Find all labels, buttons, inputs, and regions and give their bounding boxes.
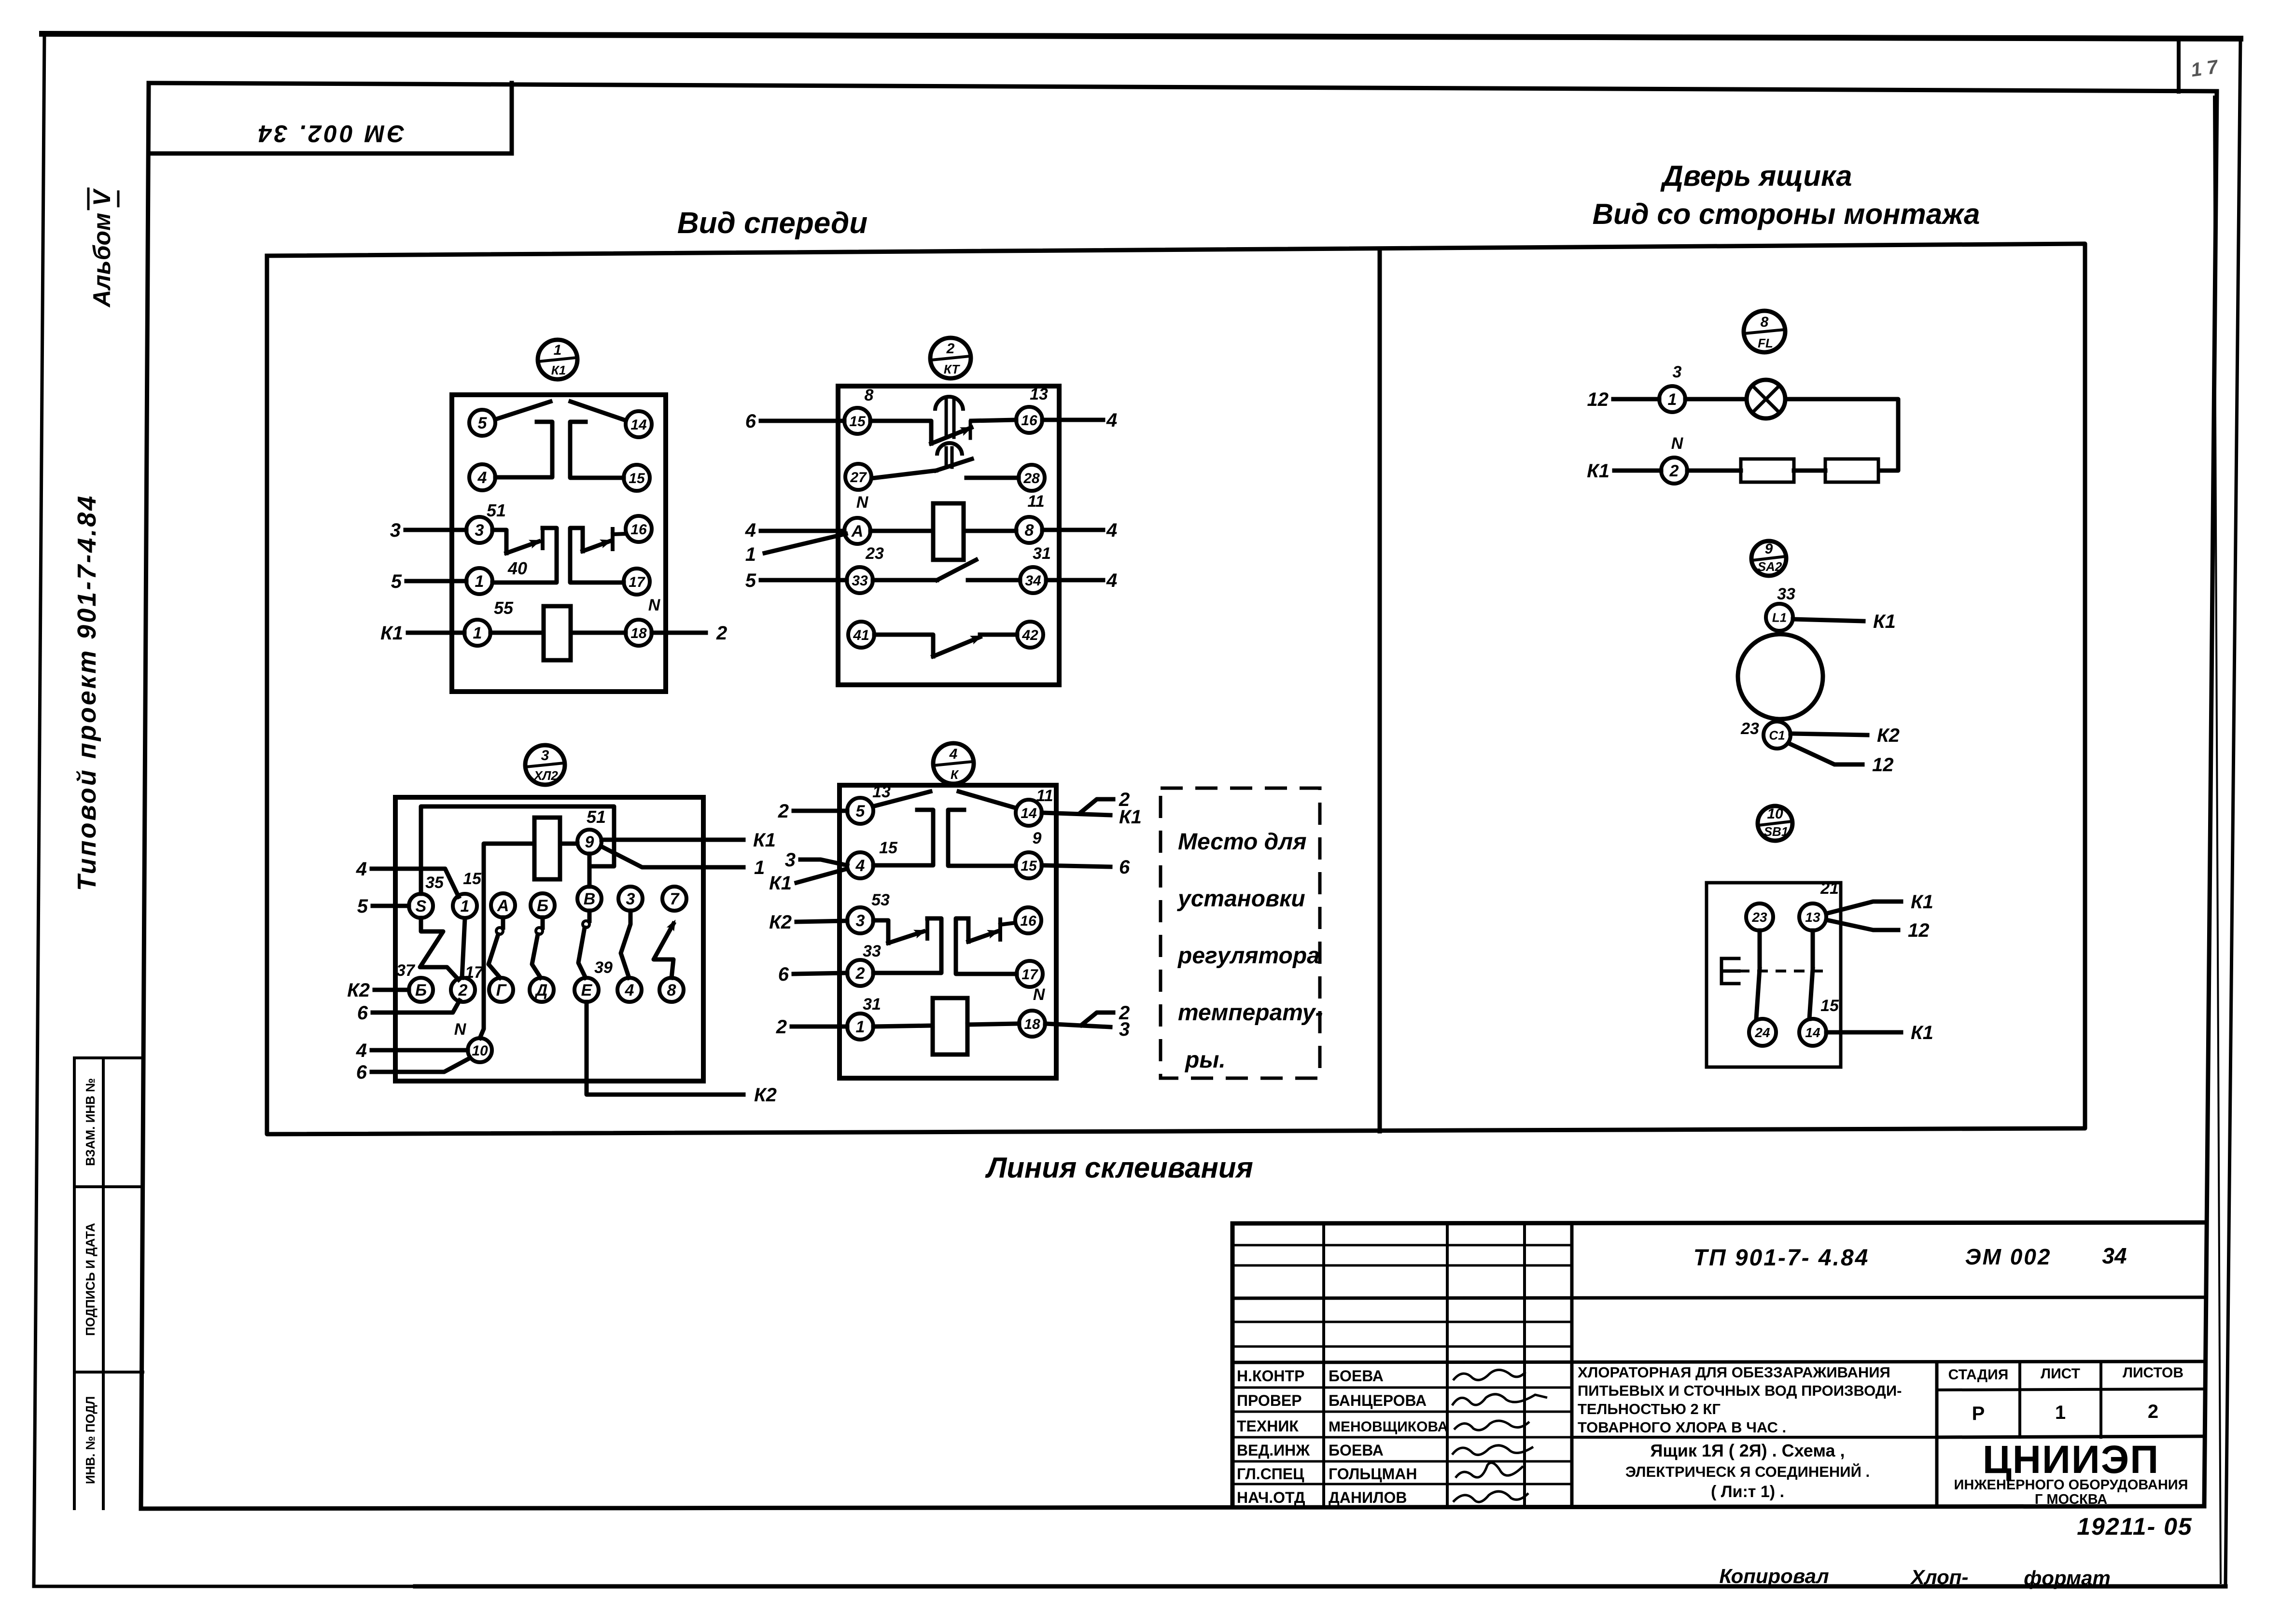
wire 15 to node 6 <box>1042 865 1110 867</box>
relay 4/K position symbol <box>933 743 974 784</box>
contact K lower: left bracket to 2 <box>873 918 941 973</box>
terminal 8 <box>659 978 684 1002</box>
terminal 2 <box>451 978 475 1002</box>
svg-text:( Ли:т 1) .: ( Ли:т 1) . <box>1711 1483 1784 1501</box>
wire E to node K2 <box>587 1002 743 1095</box>
svg-text:1: 1 <box>754 857 765 878</box>
wire coil to 8 <box>964 529 1016 533</box>
selector box <box>395 797 703 1081</box>
contact K upper: left bracket to 4 <box>873 810 933 865</box>
svg-text:2: 2 <box>458 981 468 999</box>
wire 5 into block <box>406 579 466 583</box>
label 33 <box>1777 585 1795 603</box>
wire 13 to node 12 <box>1826 920 1898 930</box>
doc code ЭМ 002 <box>1965 1244 2052 1269</box>
caption Хлоп- <box>1910 1566 1969 1588</box>
label N (terminal A) <box>856 493 869 512</box>
label 55 <box>494 598 514 618</box>
svg-text:15: 15 <box>1820 997 1839 1015</box>
svg-text:3: 3 <box>1119 1019 1130 1040</box>
title block left table verticals <box>1324 1223 1572 1507</box>
svg-text:13: 13 <box>1030 385 1048 403</box>
terminal 16 <box>626 516 652 542</box>
svg-text:14: 14 <box>1805 1025 1820 1040</box>
wire 14 to nodes 2/K1 <box>1042 799 1113 815</box>
node label K1 (row1 right) <box>1119 806 1142 828</box>
label 51 <box>487 500 506 520</box>
wire A to coil <box>870 529 933 533</box>
svg-text:Е: Е <box>581 981 593 999</box>
selector blade 1-2 <box>462 918 465 978</box>
svg-text:9: 9 <box>1033 829 1042 847</box>
description line 1 <box>1578 1364 1890 1381</box>
header ЛИСТОВ <box>2123 1365 2183 1381</box>
row ГЛ.СПЕЦ <box>1237 1465 1304 1483</box>
wire 9 to node 1 <box>603 847 743 867</box>
signature 4 <box>1452 1445 1533 1455</box>
label 15 (above 14) <box>1820 997 1839 1015</box>
wire 6 to terminal 10 <box>372 1058 470 1072</box>
terminal 33 <box>847 567 873 593</box>
terminal 27 <box>845 464 871 490</box>
svg-text:16: 16 <box>630 522 647 538</box>
svg-text:Линия склеивания: Линия склеивания <box>985 1152 1253 1184</box>
svg-text:11: 11 <box>1027 492 1044 511</box>
selector blade 7-8 w/ arrow <box>654 919 678 978</box>
svg-text:14: 14 <box>1021 805 1037 821</box>
contact K1 lower: right bracket to 17 <box>570 528 624 583</box>
resistor R1 <box>1741 459 1794 482</box>
contact KT row2: wire to 28 <box>966 476 1019 480</box>
terminal 41 <box>848 622 874 648</box>
label 13 <box>872 783 891 801</box>
svg-text:FL: FL <box>1758 336 1773 350</box>
wire 4 to terminal 10 <box>372 1048 468 1053</box>
margin box column lines <box>74 1058 143 1509</box>
svg-text:19211- 05: 19211- 05 <box>2077 1513 2192 1540</box>
label 51 <box>587 807 606 827</box>
terminal 1 <box>453 894 477 918</box>
svg-text:5: 5 <box>391 571 402 592</box>
svg-text:ТЕХНИК: ТЕХНИК <box>1237 1417 1299 1435</box>
svg-text:В: В <box>584 890 596 908</box>
contact K upper: blade from 14 <box>959 791 1014 807</box>
node label 2 (row1 right) <box>1119 789 1130 810</box>
svg-text:К1: К1 <box>551 363 566 377</box>
drawing frame bottom <box>141 1506 2204 1509</box>
label 11 <box>1036 787 1053 805</box>
page border bottom (dashed at left) <box>34 1585 2225 1588</box>
svg-text:установки: установки <box>1177 886 1305 912</box>
svg-text:К2: К2 <box>754 1084 777 1106</box>
svg-text:БОЕВА: БОЕВА <box>1329 1367 1384 1385</box>
time relay 2/KT position symbol <box>930 338 971 378</box>
svg-text:Альбом V: Альбом V <box>88 188 115 308</box>
signature 1 <box>1453 1370 1525 1380</box>
terminal C1 <box>1763 722 1791 749</box>
label 31 <box>863 995 881 1013</box>
svg-text:16: 16 <box>1020 913 1036 929</box>
signature 3 <box>1454 1421 1529 1430</box>
terminal 4 <box>469 464 495 490</box>
coil K <box>933 998 967 1055</box>
svg-text:3: 3 <box>626 890 635 908</box>
note регулятора <box>1177 943 1320 969</box>
row МЕНОВЩИКОВА <box>1329 1419 1448 1435</box>
coil K1 <box>544 606 571 660</box>
terminal 13 <box>1799 903 1826 930</box>
svg-text:4: 4 <box>745 520 756 541</box>
sheet mark 17 (pencil, top right) <box>2190 56 2220 81</box>
svg-text:2: 2 <box>855 964 865 983</box>
contact K1 upper: blade from 14 <box>571 402 624 420</box>
note установки <box>1177 886 1305 912</box>
label 15 <box>879 839 898 857</box>
margin label ПОДПИСЬ И ДАТА <box>83 1223 98 1336</box>
svg-text:6: 6 <box>357 1002 368 1024</box>
wire 3 to terminal 4 <box>800 860 847 865</box>
terminal 7 <box>662 887 686 911</box>
note Место для <box>1178 829 1306 855</box>
svg-text:34: 34 <box>2102 1243 2127 1268</box>
svg-text:8: 8 <box>1025 521 1034 540</box>
wire 3 into block <box>406 528 466 532</box>
svg-text:9: 9 <box>585 833 594 851</box>
description line 3 <box>1578 1401 1721 1417</box>
contact K1 upper: right bracket to 15 <box>570 422 624 478</box>
svg-text:4: 4 <box>356 859 367 880</box>
terminal 1 <box>847 1013 873 1040</box>
contact K lower: right elbow <box>966 918 971 942</box>
svg-text:ДАНИЛОВ: ДАНИЛОВ <box>1329 1489 1407 1506</box>
margin label ВЗАМ. ИНВ № <box>83 1078 98 1166</box>
label 3 (terminal 1) <box>1673 363 1682 381</box>
svg-text:40: 40 <box>507 558 527 578</box>
terminal 3 <box>618 887 643 911</box>
view title Вид спереди <box>677 207 868 240</box>
signature 6 <box>1453 1491 1528 1502</box>
contact K1 lower: left bracket to 1 <box>492 528 557 583</box>
view title Дверь ящика <box>1660 160 1852 192</box>
svg-text:Н.КОНТР: Н.КОНТР <box>1237 1367 1304 1385</box>
svg-text:1: 1 <box>1668 390 1677 409</box>
svg-text:2: 2 <box>946 341 955 357</box>
label 33 <box>863 942 881 960</box>
svg-text:ВЕД.ИНЖ: ВЕД.ИНЖ <box>1237 1442 1310 1459</box>
terminal 24 <box>1749 1019 1776 1046</box>
selector blade Б-Д <box>532 917 543 978</box>
svg-text:S: S <box>416 897 427 916</box>
svg-text:4: 4 <box>855 857 865 875</box>
svg-text:N: N <box>454 1020 467 1039</box>
terminal 4 <box>617 978 642 1002</box>
row ГОЛЬЦМАН <box>1329 1465 1417 1483</box>
svg-text:13: 13 <box>872 783 891 801</box>
svg-text:4: 4 <box>625 981 634 999</box>
corner box tick (top right) <box>2177 39 2181 92</box>
svg-text:18: 18 <box>1024 1016 1040 1032</box>
svg-text:ЭМ 002. 34: ЭМ 002. 34 <box>256 120 405 147</box>
svg-text:1: 1 <box>745 544 756 565</box>
coil XL2 <box>534 818 560 879</box>
terminal 4 <box>847 852 873 878</box>
terminal 1 (coil) <box>464 620 490 646</box>
svg-text:К1: К1 <box>1911 1022 1933 1043</box>
terminal 18 <box>1019 1011 1045 1037</box>
label 17 <box>465 963 484 982</box>
description divider <box>1572 1436 1937 1439</box>
svg-text:КТ: КТ <box>944 362 960 376</box>
wire 1 to coil <box>490 631 544 635</box>
node label 12 (13) <box>1908 920 1930 941</box>
contact K1 upper: left bracket to 4 <box>495 422 552 477</box>
contact K lower: jog from 3 <box>873 920 888 943</box>
label 40 <box>507 558 527 578</box>
wire 6 into block <box>794 973 847 974</box>
svg-text:12: 12 <box>1872 754 1894 776</box>
relay 1/K1 position symbol <box>538 340 577 379</box>
node label K2 (left) <box>347 980 370 1001</box>
svg-text:1: 1 <box>856 1018 865 1036</box>
svg-text:1 7: 1 7 <box>2190 56 2220 81</box>
svg-text:23: 23 <box>1740 720 1759 738</box>
svg-text:2: 2 <box>716 623 727 644</box>
wire L1 to node K1 <box>1793 619 1863 621</box>
svg-text:Г МОСКВА: Г МОСКВА <box>2035 1492 2107 1507</box>
label N (terminal 18) <box>648 596 661 614</box>
node label K1 <box>1873 611 1896 632</box>
svg-text:6: 6 <box>778 964 789 985</box>
terminal 10 <box>468 1038 492 1062</box>
node label 1 (row A) <box>745 544 756 565</box>
svg-text:4: 4 <box>1106 570 1117 591</box>
svg-text:6: 6 <box>745 411 756 432</box>
svg-text:ЛИСТОВ: ЛИСТОВ <box>2123 1365 2183 1381</box>
description line 6 <box>1625 1463 1870 1480</box>
node label 2 (row5 right) <box>1119 1002 1130 1024</box>
contact KT row4: wire to 34 <box>968 578 1020 583</box>
contact KT row2: delay head <box>937 443 962 467</box>
node label 12 <box>1587 389 1609 410</box>
svg-text:ИНВ. № ПОДЛ: ИНВ. № ПОДЛ <box>83 1396 98 1484</box>
terminal 17 <box>1017 961 1043 987</box>
contact K1 lower: jog from 3 <box>492 530 506 553</box>
wire 2 into block row5 <box>792 1025 847 1029</box>
row Н.КОНТР <box>1237 1367 1304 1385</box>
value Р <box>1972 1403 1985 1424</box>
svg-text:51: 51 <box>487 500 506 520</box>
svg-text:5: 5 <box>357 896 368 917</box>
row БОЕВА2 <box>1329 1442 1384 1459</box>
title block header divider <box>1232 1297 2205 1298</box>
selector blade A-Г <box>489 917 503 978</box>
doc code ТП 901-7-4.84 <box>1693 1245 1870 1271</box>
wire 6 into block <box>761 419 844 423</box>
terminal E <box>574 978 599 1002</box>
svg-text:24: 24 <box>1754 1025 1770 1040</box>
svg-text:1: 1 <box>2055 1402 2066 1423</box>
description line 5 <box>1650 1441 1845 1460</box>
svg-text:ТЕЛЬНОСТЬЮ 2 КГ: ТЕЛЬНОСТЬЮ 2 КГ <box>1578 1401 1721 1417</box>
drawing frame right <box>2204 91 2217 1506</box>
terminal 8 <box>1016 517 1042 543</box>
wire 9 down to B <box>588 854 592 887</box>
svg-text:21: 21 <box>1820 879 1839 898</box>
svg-text:4: 4 <box>356 1040 367 1061</box>
svg-text:К1: К1 <box>753 830 776 851</box>
svg-text:НАЧ.ОТД: НАЧ.ОТД <box>1237 1489 1305 1506</box>
svg-text:БАНЦЕРОВА: БАНЦЕРОВА <box>1329 1392 1427 1409</box>
svg-text:28: 28 <box>1023 471 1040 486</box>
terminal 2 <box>847 960 873 986</box>
contact K lower: blade w/ arrow <box>888 927 926 943</box>
view title Вид со стороны монтажа <box>1593 198 1980 230</box>
svg-text:16: 16 <box>1021 413 1037 429</box>
svg-text:7: 7 <box>670 890 680 908</box>
svg-text:4: 4 <box>1106 410 1117 431</box>
svg-text:35: 35 <box>425 874 444 892</box>
contact K1 lower: blade to 16 <box>583 537 612 551</box>
svg-text:2: 2 <box>1669 462 1679 480</box>
svg-text:3: 3 <box>475 521 484 540</box>
svg-text:К1: К1 <box>1911 891 1933 913</box>
svg-text:Хлоп-: Хлоп- <box>1910 1566 1969 1588</box>
svg-text:37: 37 <box>396 961 416 980</box>
label 39 <box>594 958 613 977</box>
wire 5 to S <box>373 904 409 908</box>
row ВЕД.ИНЖ <box>1237 1442 1310 1459</box>
node label 4 (right row4) <box>1106 570 1117 591</box>
svg-text:9: 9 <box>1765 541 1773 557</box>
resistor R2 <box>1825 459 1878 482</box>
terminal 9 <box>577 830 602 854</box>
svg-text:температу-: температу- <box>1178 1000 1323 1026</box>
row ДАНИЛОВ <box>1329 1489 1407 1506</box>
note ры. <box>1184 1047 1226 1073</box>
label N (terminal 2) <box>1671 434 1684 453</box>
svg-text:ТОВАРНОГО ХЛОРА В ЧАС .: ТОВАРНОГО ХЛОРА В ЧАС . <box>1578 1419 1786 1436</box>
svg-text:31: 31 <box>1033 544 1051 563</box>
selector blade 3-4 <box>621 911 630 978</box>
selector wiper S-2 <box>420 918 459 980</box>
enclosure divider (door fold line) <box>1378 249 1382 1131</box>
label 23 <box>1740 720 1759 738</box>
svg-text:А: А <box>851 522 864 541</box>
label 9 <box>1033 829 1042 847</box>
svg-text:ИНЖЕНЕРНОГО ОБОРУДОВАНИЯ: ИНЖЕНЕРНОГО ОБОРУДОВАНИЯ <box>1954 1477 2188 1493</box>
selector blade В-Е <box>578 911 589 978</box>
svg-text:Б: Б <box>415 981 427 999</box>
caption Копировал <box>1719 1565 1829 1587</box>
label N (terminal 18) <box>1033 986 1046 1004</box>
coil KT <box>933 503 964 560</box>
svg-text:N: N <box>648 596 661 614</box>
svg-text:ры.: ры. <box>1184 1047 1226 1073</box>
contact KT row1: delay head <box>935 397 963 437</box>
svg-text:N: N <box>856 493 869 512</box>
enclosure outline (front view + door) <box>267 244 2085 1134</box>
svg-text:15: 15 <box>463 870 482 888</box>
contact KT row1: wire to 16 <box>971 420 1016 421</box>
wire C1 to node K2 <box>1791 734 1867 735</box>
lamp 8/FL position symbol <box>1744 311 1785 352</box>
relay 2/KT terminal box <box>838 386 1059 685</box>
row НАЧ.ОТД <box>1237 1489 1305 1506</box>
terminal 3 <box>466 517 492 543</box>
terminal A <box>844 518 870 544</box>
svg-text:Вид со стороны монтажа: Вид со стороны монтажа <box>1593 198 1980 230</box>
node label K1 (14) <box>1911 1022 1933 1043</box>
svg-text:Дверь ящика: Дверь ящика <box>1660 160 1852 192</box>
svg-text:10: 10 <box>472 1043 488 1059</box>
svg-text:К: К <box>951 767 959 782</box>
relay 1/K1 terminal box <box>452 395 666 692</box>
terminal 5 <box>469 410 495 436</box>
node label K1 <box>1587 460 1609 482</box>
svg-text:К1: К1 <box>769 873 792 894</box>
button SB1 box <box>1707 883 1841 1067</box>
svg-text:Типовой проект 901-7-4.84: Типовой проект 901-7-4.84 <box>72 494 101 891</box>
description line 4 <box>1578 1419 1786 1436</box>
contact K lower: tick right <box>1000 919 1015 940</box>
svg-text:23: 23 <box>1751 910 1767 925</box>
svg-text:ХЛОРАТОРНАЯ ДЛЯ ОБЕЗЗАРАЖИВАНИ: ХЛОРАТОРНАЯ ДЛЯ ОБЕЗЗАРАЖИВАНИЯ <box>1578 1364 1890 1381</box>
wire 13 to node K1 <box>1826 902 1901 914</box>
contact K lower: tick left <box>925 918 929 939</box>
node label 5 (left) <box>391 571 402 592</box>
node label 12 <box>1872 754 1894 776</box>
terminal 2 <box>1661 458 1687 484</box>
label 23 <box>865 544 884 563</box>
node label K2 (bottom) <box>754 1084 777 1106</box>
svg-text:SB1: SB1 <box>1764 824 1789 839</box>
selector 3/ХЛ2 position symbol <box>525 745 565 785</box>
contact K upper: right bracket to 15 <box>948 810 1016 866</box>
svg-text:формат: формат <box>2024 1567 2111 1589</box>
node label 6 (left) <box>745 411 756 432</box>
terminal L1 <box>1766 604 1793 631</box>
wire 8 to node 4 <box>1042 528 1103 532</box>
svg-text:Место для: Место для <box>1178 829 1306 855</box>
svg-text:Р: Р <box>1972 1403 1985 1424</box>
svg-text:К1: К1 <box>380 623 403 644</box>
label N (terminal 10) <box>454 1020 467 1039</box>
svg-text:55: 55 <box>494 598 514 618</box>
node label 1 <box>754 857 765 878</box>
svg-text:3: 3 <box>390 520 401 541</box>
terminal 14 <box>1016 800 1042 826</box>
button contact stems <box>1756 930 1813 1019</box>
wire coil to 18 <box>967 1024 1019 1025</box>
wire coil to 18 <box>571 631 626 635</box>
wire 12 to terminal 1 <box>1613 397 1659 402</box>
node label 4 (top left) <box>356 859 367 880</box>
org line 2 <box>1954 1477 2188 1493</box>
stadia table lines <box>1937 1362 2205 1507</box>
terminal 23 <box>1746 903 1773 930</box>
page border top <box>42 34 2240 39</box>
svg-text:Д: Д <box>534 981 548 999</box>
svg-text:L1: L1 <box>1772 610 1787 625</box>
svg-text:15: 15 <box>1021 858 1037 874</box>
svg-text:ВЗАМ. ИНВ №: ВЗАМ. ИНВ № <box>83 1078 98 1166</box>
title block outline <box>1232 1222 2205 1507</box>
contact KT row5: wire to 42 <box>980 633 1017 637</box>
wire 18 to node 2 <box>652 631 706 635</box>
label 31 <box>1033 544 1051 563</box>
svg-text:10: 10 <box>1767 806 1783 822</box>
svg-text:К1: К1 <box>1587 460 1609 482</box>
